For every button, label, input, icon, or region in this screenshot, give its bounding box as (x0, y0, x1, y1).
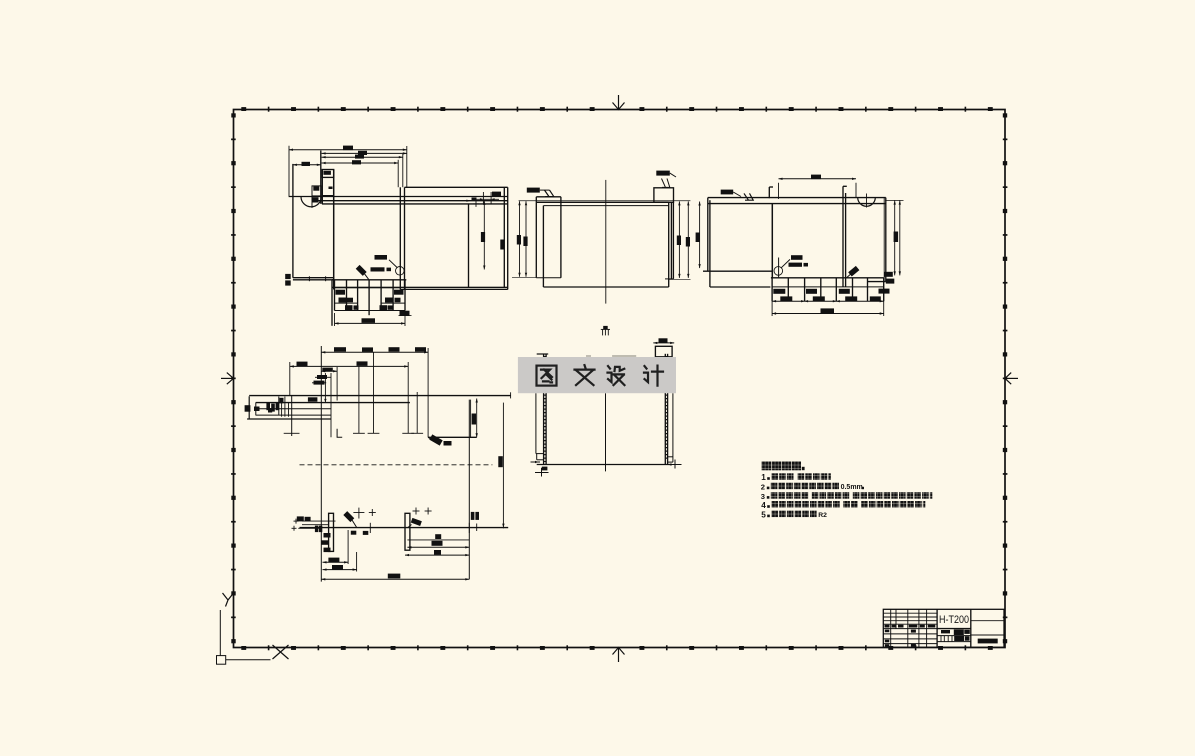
small dim top right (653, 342, 674, 344)
column top detail box (322, 170, 333, 178)
leader flag right (429, 434, 442, 445)
channel line B (256, 402, 410, 404)
overall bottom dim (321, 578, 469, 580)
feet mid line (332, 286, 508, 288)
left open table part (707, 198, 709, 272)
bottom edge line (537, 464, 672, 466)
rail line2 (708, 203, 886, 205)
bottom right end marks (668, 463, 672, 465)
hole leader callout (781, 259, 790, 267)
slot verticals center (399, 187, 401, 289)
lower main edge line (300, 527, 509, 529)
centering mark arrow left (221, 373, 234, 385)
technical requirements heading (762, 461, 805, 470)
feet dim text row3 (345, 305, 353, 310)
small thickness dim top right (482, 192, 484, 205)
center mark stem (291, 396, 293, 436)
top edge segments (537, 353, 549, 355)
vertical dim text right edge (500, 240, 504, 250)
title block left grid horizontals (883, 612, 937, 614)
vertical centerline (605, 180, 607, 304)
feet bottom right mark (400, 311, 410, 316)
tech requirement line 3 (761, 492, 933, 501)
datum symbol below view (601, 326, 610, 336)
watermark gray box (518, 357, 676, 393)
right end rotated blobs (471, 512, 475, 520)
centering mark arrow top (613, 95, 625, 110)
upper cross marks (358, 508, 360, 519)
dim line row1 (289, 149, 407, 151)
feet row lines (335, 302, 358, 304)
tapped hole circle (396, 267, 405, 276)
section flag left of hole (356, 265, 367, 276)
drawing frame border (234, 110, 1006, 648)
channel text blobs (254, 407, 260, 412)
small box left of column (312, 186, 321, 196)
dim row2 (290, 365, 408, 367)
title block left grid verticals (890, 609, 892, 628)
dim lower a (323, 561, 349, 563)
title block (883, 609, 1004, 647)
far right vertical dim (502, 403, 504, 529)
feet overall dim (335, 322, 406, 324)
vertical dim pair between views (512, 201, 690, 278)
rail line 4 (322, 203, 508, 205)
feet top line (771, 277, 884, 279)
plate second line (543, 205, 668, 207)
channel inner lines (258, 408, 331, 410)
stud post right (405, 513, 410, 550)
left column (535, 197, 537, 278)
tech requirement line 5 (761, 510, 827, 519)
square right edge (503, 187, 505, 287)
UCS icon Y axis label (223, 593, 234, 607)
right outer line (672, 393, 674, 462)
small box top right (655, 346, 672, 357)
tapped hole circle (774, 267, 783, 276)
section flag (848, 266, 859, 277)
tech requirement line 1 (761, 473, 831, 482)
centering mark arrow right (1005, 373, 1018, 385)
slot verticals (842, 193, 844, 287)
UCS icon X axis label (273, 645, 289, 659)
feet chain dim line (772, 300, 884, 302)
rail line 2 (289, 196, 508, 198)
small dims cluster (315, 376, 331, 378)
svg-text:0.5mm: 0.5mm (841, 484, 863, 491)
left column outline (292, 164, 294, 278)
title right cell lines (971, 620, 1004, 622)
feet dim text row2 (780, 296, 792, 301)
border zone tick marks right edge (1003, 113, 1008, 643)
svg-text:4: 4 (761, 501, 766, 510)
feet dim text row2 (339, 298, 347, 303)
svg-text:R2: R2 (818, 512, 827, 519)
channel left edge (248, 396, 250, 419)
square bottom lines (334, 287, 508, 289)
tech requirement line 2 (761, 482, 864, 491)
border zone tick marks left edge (231, 113, 236, 643)
title block small cell texts (885, 630, 890, 633)
rail top edge (405, 186, 508, 188)
UCS icon X axis line (226, 659, 271, 661)
svg-text:H-T200: H-T200 (939, 614, 969, 626)
feet dim text row1 (773, 289, 785, 294)
left dim cluster lower (297, 516, 304, 521)
feet dim text row1 (336, 290, 346, 295)
UCS icon Y axis line (219, 610, 221, 656)
view: base weldment front view (top-left) (285, 146, 508, 326)
long vertical right (468, 400, 470, 580)
feet posts (334, 280, 336, 311)
border zone tick marks top edge (241, 107, 992, 112)
stud post left (329, 513, 334, 551)
dim line left small (293, 164, 321, 166)
leader flag lower-left (343, 511, 354, 522)
left vertical dim (699, 202, 701, 269)
view: base weldment front view mirrored (top-right) (696, 175, 904, 316)
weld symbol left (527, 188, 540, 193)
feet top line (332, 279, 406, 281)
svg-text:1: 1 (761, 473, 766, 482)
left outer line (535, 393, 537, 453)
svg-text:2: 2 (761, 482, 765, 491)
right vertical dims (894, 201, 896, 276)
arc detail at left column (301, 197, 321, 207)
chain dim top row (321, 351, 428, 353)
square plate left edge (771, 204, 773, 278)
title mid lower cells (937, 628, 971, 630)
right vertical dim (476, 399, 478, 438)
weld symbol top left (721, 190, 734, 195)
rail line 3 (312, 200, 508, 202)
bottom left end marks (531, 461, 541, 463)
channel inner verticals (278, 397, 280, 416)
right dim group (407, 539, 469, 541)
svg-text:3: 3 (761, 492, 765, 501)
right dim pair (678, 201, 680, 278)
left hatched strip (543, 354, 545, 465)
feet overall dim (772, 313, 884, 315)
dim line row3 (322, 156, 403, 158)
rail top edge (708, 197, 886, 199)
stud center crosses (353, 432, 365, 434)
left bottom dim texts (324, 533, 331, 538)
center vertical line (605, 393, 607, 471)
right column riser block (654, 188, 674, 203)
top plate line (536, 201, 668, 203)
feet mid line (772, 286, 884, 288)
line C right (428, 436, 477, 438)
feet posts (771, 278, 773, 301)
arc detail top right (858, 198, 876, 207)
square right edge (885, 198, 887, 282)
rail small arrows mid (473, 203, 479, 205)
corner hook left (768, 187, 770, 198)
title block main dividers (936, 609, 938, 647)
view: column bottom view (center) (531, 338, 682, 476)
company name blob (978, 639, 998, 644)
title block header text blobs (885, 625, 890, 628)
view: bed side view (top-middle) (527, 171, 691, 336)
weld symbol right (656, 171, 670, 176)
big square plate left edge (333, 170, 335, 290)
view: saddle top view (middle-left) (245, 346, 511, 582)
UCS icon origin box (217, 656, 226, 665)
tech requirement line 4 (761, 501, 925, 510)
centering mark arrow bottom (613, 648, 625, 663)
dim line row2 (322, 152, 407, 154)
right hatched strip (664, 354, 666, 465)
dim lower b (323, 569, 357, 571)
body outline (542, 206, 544, 287)
extension verticals (320, 346, 322, 582)
channel main line A (249, 395, 510, 397)
inner vertical right (468, 204, 470, 288)
vertical dim line inner (483, 201, 485, 270)
svg-text:5: 5 (761, 510, 766, 519)
corner hook right (842, 186, 844, 193)
L mark (337, 429, 342, 438)
border zone tick marks bottom edge (241, 645, 992, 650)
dim line row4 (322, 162, 399, 164)
top dim line (779, 178, 857, 180)
dashed centerline (300, 464, 493, 466)
watermark characters tu-wen-she-ji drawn as vector strokes (537, 365, 664, 386)
leader flag lower-right (411, 518, 422, 526)
left end dim blobs (285, 274, 291, 279)
dim row3 (321, 370, 337, 372)
leader with thread callout (389, 260, 397, 268)
bottom-left shelf lines (293, 277, 334, 279)
